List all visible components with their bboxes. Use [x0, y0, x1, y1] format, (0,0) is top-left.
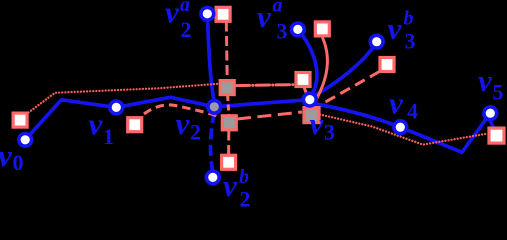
wire: blue edge v2-v3 — [214, 100, 309, 107]
wire: blue edge v3a-v3 — [298, 29, 317, 95]
svg-text:5: 5 — [493, 80, 504, 105]
wire: blue edge v0-v1 — [25, 100, 116, 140]
svg-text:a: a — [180, 0, 190, 16]
svg-text:v: v — [0, 138, 13, 173]
svg-text:b: b — [239, 166, 249, 188]
svg-text:b: b — [404, 8, 414, 30]
node v2 (gray) — [208, 100, 221, 113]
svg-text:3: 3 — [405, 28, 416, 53]
svg-text:v: v — [165, 0, 180, 30]
svg-text:v: v — [89, 107, 104, 142]
svg-text:2: 2 — [240, 187, 251, 209]
node v4 — [394, 121, 407, 134]
svg-text:a: a — [273, 0, 283, 17]
wire: hidden red link SL3 to G3 — [304, 87, 311, 106]
svg-text:4: 4 — [407, 99, 418, 124]
wire: red dashed arc S1 to G2 — [144, 105, 222, 118]
wire: blue edge v1-v2 — [116, 97, 214, 107]
node v2b — [206, 171, 219, 184]
wire: blue edge v4-v5 — [400, 113, 490, 152]
node v1 — [110, 101, 123, 114]
node v5 — [484, 107, 497, 120]
svg-text:3: 3 — [277, 19, 288, 44]
square S5 — [489, 128, 504, 143]
square S0 — [13, 113, 27, 127]
node v2a — [201, 7, 214, 20]
square G3 (gray) — [304, 108, 319, 123]
square G2 (gray) — [222, 116, 236, 130]
wire: red dashed G2 to G3 — [237, 112, 302, 119]
square S2b — [222, 155, 236, 169]
wire: red dashed link G1 to G2 — [228, 95, 229, 115]
svg-text:0: 0 — [13, 150, 24, 175]
svg-text:1: 1 — [103, 124, 114, 149]
svg-text:v: v — [257, 0, 272, 34]
svg-text:v: v — [388, 11, 403, 46]
svg-text:v: v — [223, 168, 238, 203]
square S1 — [128, 118, 142, 132]
svg-text:2: 2 — [181, 17, 192, 42]
wire: red dotted G3 to S5 — [317, 114, 486, 145]
svg-text:v: v — [389, 86, 404, 121]
wire: red dash-dot G1 to SL3 — [236, 85, 295, 86]
svg-text:2: 2 — [190, 120, 201, 145]
wire: red dashed G2 to S2b — [227, 131, 230, 156]
square G1 (gray) — [220, 81, 234, 95]
svg-text:v: v — [176, 106, 191, 141]
node v3b — [370, 35, 383, 48]
wire: red dashed S2a to G1 — [225, 22, 229, 81]
svg-text:v: v — [310, 106, 325, 141]
square S3b — [380, 58, 394, 72]
square S2a — [216, 7, 230, 21]
wire: blue stub v5 to S5 — [490, 120, 494, 128]
square SL3 — [296, 73, 310, 87]
wire: blue edge v3-v4 — [311, 103, 401, 127]
node v3a — [291, 23, 304, 36]
wire: blue edge v2a-v2 — [207, 14, 214, 100]
node v0 — [19, 133, 32, 146]
wire: blue edge v3b-v3 — [313, 42, 377, 97]
svg-text:3: 3 — [324, 120, 335, 145]
node v3 — [303, 93, 316, 106]
square S3a — [315, 22, 329, 36]
wire: red dotted S0 to G1 — [29, 84, 219, 113]
wire: red dashed S3b to G3 — [321, 72, 380, 105]
wire: blue dashed edge v2-v2b — [211, 112, 215, 171]
wire: red solid curve S3a to G3 — [313, 37, 328, 106]
svg-text:v: v — [478, 63, 493, 98]
